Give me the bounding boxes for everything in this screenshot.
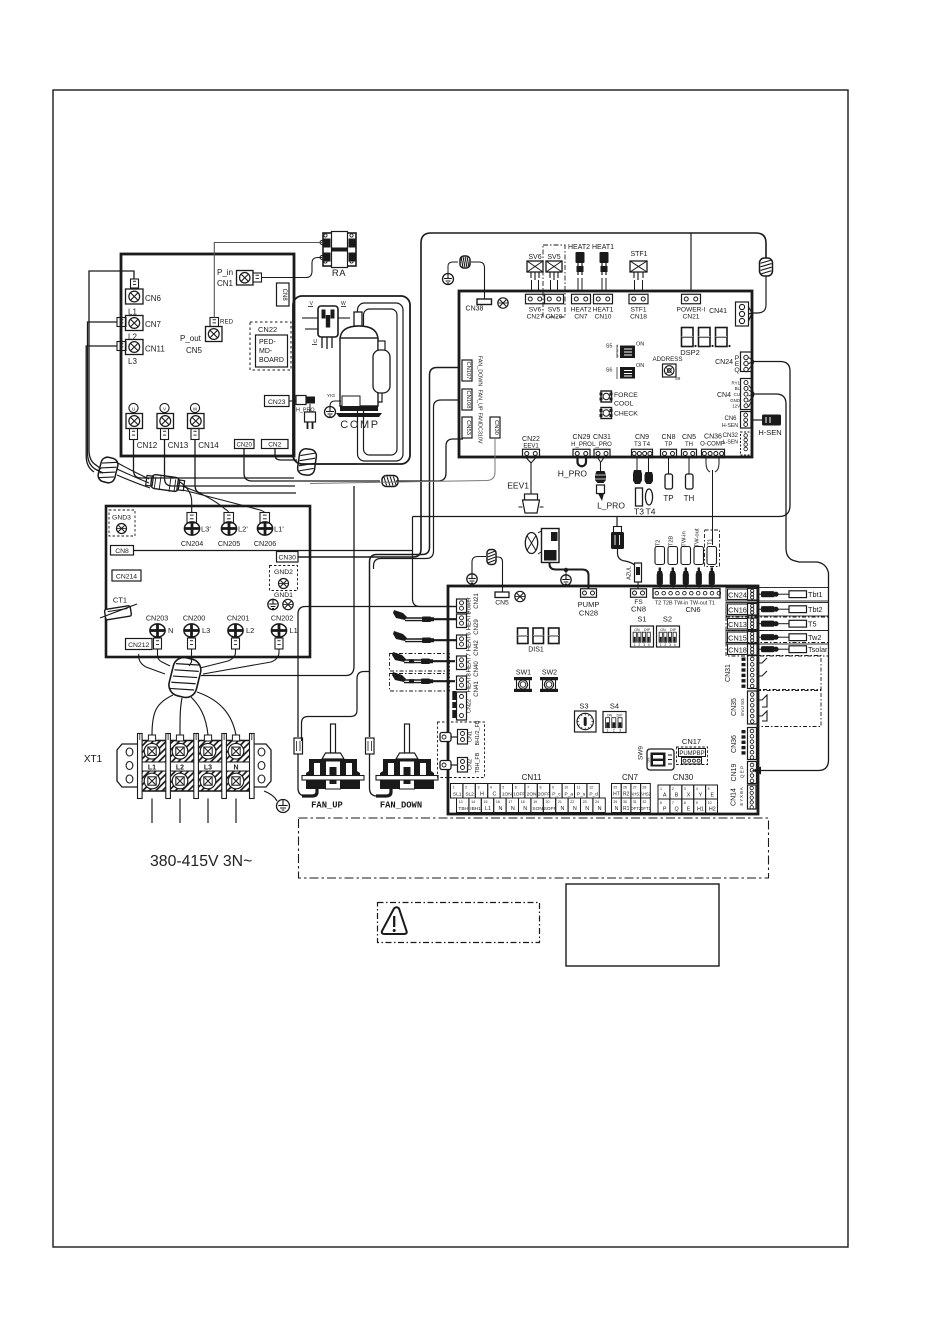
svg-text:CN53: CN53 (465, 420, 471, 435)
svg-text:L3: L3 (202, 626, 210, 635)
button CHECK (601, 408, 612, 419)
cable coil CN41 (760, 258, 773, 276)
svg-text:CN21: CN21 (473, 593, 480, 609)
svg-text:SV6: SV6 (528, 254, 541, 261)
svg-text:Tw2: Tw2 (808, 633, 821, 642)
terminal CN206 L1' (260, 513, 270, 524)
svg-text:CN31: CN31 (593, 434, 611, 441)
svg-text:H-SEN: H-SEN (758, 428, 781, 437)
connector CN6 sensor strip (653, 589, 720, 599)
plug H-SEN (751, 419, 762, 421)
svg-text:CN28: CN28 (579, 609, 598, 618)
display DSP2 (682, 328, 694, 347)
svg-text:5: 5 (502, 785, 504, 789)
svg-text:N: N (615, 806, 619, 812)
svg-text:CN11: CN11 (145, 345, 165, 354)
svg-text:HEAT8: HEAT8 (466, 673, 473, 693)
svg-text:N: N (585, 806, 589, 812)
svg-text:DIP: DIP (617, 714, 624, 718)
svg-text:DIP: DIP (670, 628, 677, 632)
wire CN23 to H_PRO (289, 400, 296, 402)
svg-text:2OFF: 2OFF (538, 792, 550, 798)
svg-text:1: 1 (660, 787, 662, 791)
connector CN28 PUMP (581, 589, 597, 598)
svg-text:19: 19 (533, 800, 537, 804)
wire FAN_UP riser (298, 607, 457, 738)
connector CN6 (131, 279, 139, 288)
connector CN2 (262, 440, 289, 449)
svg-text:CN19: CN19 (731, 763, 738, 781)
svg-text:CN23: CN23 (268, 399, 286, 406)
svg-text:ADDRESS: ADDRESS (653, 356, 683, 363)
svg-text:P: P (663, 807, 667, 813)
svg-text:L1: L1 (148, 765, 156, 772)
svg-text:Tsolar: Tsolar (808, 645, 828, 654)
svg-text:CN7: CN7 (145, 320, 162, 329)
connector CN7 HEAT2 (572, 294, 591, 304)
wire L2 from CN7 (88, 322, 118, 473)
connector CN8 edge label (111, 546, 134, 556)
svg-text:T3: T3 (634, 507, 644, 517)
svg-text:H_PRO: H_PRO (571, 442, 592, 448)
switch H_PRO comp (296, 396, 306, 405)
wire stubs CN35 (757, 695, 767, 721)
svg-text:CN214: CN214 (116, 574, 137, 581)
wires XT1 to bottom (151, 799, 153, 824)
svg-text:S4: S4 (610, 702, 619, 711)
svg-text:N: N (523, 806, 527, 812)
svg-text:EEV1: EEV1 (507, 481, 529, 491)
svg-text:CN42: CN42 (473, 640, 480, 656)
field wiring dash-dot box (299, 818, 769, 878)
svg-text:HEAT5: HEAT5 (466, 611, 473, 631)
svg-text:FAN_DOWN: FAN_DOWN (380, 801, 422, 811)
svg-text:CN202: CN202 (271, 614, 293, 623)
sensor T4 (648, 458, 650, 473)
svg-text:31: 31 (633, 800, 637, 804)
svg-text:CN20: CN20 (546, 314, 563, 321)
wire U CN12 to comp (134, 440, 295, 479)
compressor COMP body (336, 312, 382, 417)
connector CN7 (117, 318, 126, 327)
sensor row CN13 T5 (726, 617, 829, 631)
svg-text:FANDC310V: FANDC310V (477, 413, 483, 444)
svg-text:CN36: CN36 (731, 735, 738, 753)
fan plug inline FAN_UP (294, 738, 303, 754)
svg-text:HEAT1: HEAT1 (593, 307, 614, 314)
wire L1 from CN6 (89, 271, 134, 469)
dashed option boxes right (757, 656, 821, 690)
svg-text:T2: T2 (656, 540, 662, 547)
svg-text:2: 2 (617, 349, 619, 353)
svg-text:TW-out: TW-out (695, 528, 701, 547)
svg-text:A: A (663, 793, 667, 799)
svg-text:X: X (687, 793, 691, 799)
cable coil comp inlet (297, 448, 317, 476)
switch H_PRO upper (578, 458, 587, 467)
svg-text:CN29: CN29 (473, 619, 480, 635)
svg-text:DFT1: DFT1 (640, 806, 651, 811)
wire V CN13 to comp (165, 440, 296, 487)
svg-text:HEAT1: HEAT1 (592, 244, 614, 251)
svg-text:9: 9 (552, 785, 554, 789)
svg-text:CN200: CN200 (183, 614, 205, 623)
plug to CN2 (440, 761, 451, 770)
svg-text:SW1: SW1 (516, 670, 531, 677)
optional SV5 dash-dot box (543, 245, 565, 317)
sensor row CN15 Tw2 (726, 631, 829, 645)
cable clamp (145, 473, 185, 493)
svg-text:CN10: CN10 (595, 314, 612, 321)
svg-text:HEAT7: HEAT7 (466, 653, 473, 673)
svg-text:RED: RED (220, 319, 234, 326)
svg-text:CN15: CN15 (728, 633, 747, 642)
XT1 hatch cells (138, 741, 166, 763)
svg-text:CN8: CN8 (631, 605, 646, 614)
svg-text:SV5: SV5 (548, 307, 561, 314)
svg-text:CN7: CN7 (574, 314, 588, 321)
svg-text:TH: TH (685, 442, 693, 448)
svg-text:Y: Y (699, 793, 703, 799)
svg-text:17: 17 (508, 800, 512, 804)
svg-text:13: 13 (459, 800, 463, 804)
svg-text:26: 26 (623, 785, 627, 789)
ground wire and symbol right of XT1 (264, 791, 277, 801)
svg-text:2: 2 (465, 785, 467, 789)
svg-text:T5: T5 (808, 620, 817, 629)
svg-text:E: E (710, 793, 714, 799)
svg-text:N: N (233, 765, 238, 772)
svg-text:28: 28 (642, 785, 646, 789)
svg-text:CN5: CN5 (186, 346, 203, 355)
svg-text:7: 7 (672, 801, 674, 805)
svg-text:HEAT2: HEAT2 (568, 244, 590, 251)
svg-text:1: 1 (634, 643, 636, 647)
border frame (53, 90, 848, 1247)
svg-text:21: 21 (558, 800, 562, 804)
svg-text:GND1: GND1 (274, 592, 293, 599)
terminal CN12 U (129, 403, 138, 412)
svg-text:BOARD: BOARD (259, 357, 284, 364)
svg-text:L2: L2 (176, 765, 184, 772)
wire FS stem (616, 517, 618, 532)
svg-text:CN11: CN11 (522, 773, 542, 782)
svg-text:P_in: P_in (217, 268, 233, 277)
svg-text:L1: L1 (485, 806, 491, 812)
valve EEV1 (526, 458, 536, 495)
svg-text:2: 2 (638, 643, 640, 647)
svg-text:CN29: CN29 (573, 434, 591, 441)
motor FAN_DOWN (376, 724, 438, 796)
wires clamp to CN204 CN205 CN206 (180, 482, 192, 513)
svg-text:S5: S5 (606, 344, 613, 350)
board PCB3 outline (106, 506, 310, 657)
svg-text:COOL: COOL (614, 401, 633, 408)
svg-text:Tbt1: Tbt1 (808, 590, 823, 599)
connector CN10 HEAT1 (594, 294, 613, 304)
svg-text:3: 3 (643, 643, 645, 647)
svg-text:4: 4 (648, 643, 650, 647)
svg-text:CN41: CN41 (473, 681, 480, 697)
svg-text:20: 20 (546, 800, 550, 804)
svg-text:2: 2 (613, 728, 615, 732)
svg-text:H1: H1 (697, 807, 704, 813)
svg-text:CU: CU (734, 392, 740, 397)
svg-text:SL2: SL2 (465, 792, 474, 798)
svg-text:8: 8 (540, 785, 542, 789)
svg-text:MD-: MD- (259, 348, 273, 355)
board PCB2 outline (459, 291, 752, 457)
wire RA to CN5 (214, 243, 322, 318)
svg-text:TBH_FB: TBH_FB (475, 752, 481, 773)
svg-text:BH1/2_FB: BH1/2_FB (475, 720, 481, 745)
svg-text:CN13: CN13 (728, 620, 747, 629)
svg-text:CN13: CN13 (168, 441, 189, 450)
svg-text:CN212: CN212 (128, 642, 149, 649)
svg-text:CN8: CN8 (115, 548, 129, 555)
svg-text:CN17: CN17 (682, 737, 701, 746)
relay RA (320, 232, 356, 268)
svg-text:BL: BL (735, 386, 741, 391)
svg-text:CN38: CN38 (466, 306, 484, 313)
svg-text:DSP2: DSP2 (680, 348, 700, 357)
dashed box around CN1 CN2 plugs (438, 722, 485, 778)
svg-text:H2: H2 (709, 807, 716, 813)
svg-text:Q: Q (734, 367, 739, 374)
svg-text:SW9: SW9 (638, 746, 645, 760)
connector CN2 TBH_FB (458, 758, 468, 773)
cable coil CN38 wire (460, 256, 470, 268)
svg-text:L-SEN: L-SEN (723, 440, 739, 446)
svg-text:CN18: CN18 (630, 314, 647, 321)
svg-text:11: 11 (577, 785, 581, 789)
connector CN21 POWER-I (682, 294, 701, 304)
wire stubs CN31 (757, 658, 767, 676)
sensor row CN16 Tbt2 (726, 603, 829, 617)
svg-text:P_c: P_c (552, 792, 561, 798)
svg-text:CN205: CN205 (218, 539, 240, 548)
contactor SB above pump (525, 533, 537, 554)
svg-text:PUMPBP: PUMPBP (679, 751, 704, 757)
svg-text:CN2: CN2 (268, 442, 281, 449)
svg-text:ON: ON (607, 714, 613, 718)
svg-text:25: 25 (613, 785, 617, 789)
svg-text:DIS1: DIS1 (528, 647, 544, 654)
svg-text:L3': L3' (201, 525, 211, 534)
junction dot and ground right (564, 568, 568, 572)
svg-text:Q E P: Q E P (740, 766, 745, 778)
wire coil to CN41 (749, 276, 767, 321)
svg-text:TBH: TBH (458, 806, 468, 812)
svg-text:CN30: CN30 (279, 555, 297, 562)
board PCB1 outline (121, 254, 294, 456)
svg-text:10: 10 (708, 801, 712, 805)
svg-text:CN8: CN8 (661, 434, 675, 441)
connector CN5 bar (495, 592, 509, 598)
wires coil to clamp (116, 462, 149, 479)
svg-text:L_PRO: L_PRO (592, 442, 612, 448)
svg-text:L3: L3 (204, 765, 212, 772)
heater HEAT7 optional (390, 654, 450, 672)
svg-text:27: 27 (633, 785, 637, 789)
ground screw on board4 (515, 591, 525, 601)
svg-text:L1: L1 (290, 626, 298, 635)
wires to supply coil (158, 649, 171, 666)
wire L3 from CN11 (86, 346, 117, 472)
cable coil left (97, 456, 120, 484)
connector CN8 board1 edge (277, 283, 290, 306)
svg-text:CN31: CN31 (725, 664, 732, 682)
svg-text:COMP: COMP (340, 419, 379, 431)
ground GND3 (109, 510, 135, 536)
heater HEAT8 optional (390, 674, 450, 692)
svg-text:CN40: CN40 (473, 661, 480, 677)
XT1 mounting posts (138, 734, 143, 799)
svg-text:CN41: CN41 (709, 308, 727, 315)
sensor TH (688, 458, 690, 475)
terminal CN13 V (160, 403, 169, 412)
svg-text:CN8: CN8 (281, 289, 287, 302)
svg-text:1ON: 1ON (502, 792, 512, 798)
svg-text:1: 1 (617, 344, 619, 348)
wire O-COMP down (706, 458, 719, 546)
connector CN214 (112, 570, 141, 581)
connector CN29 HEAT5 (457, 614, 467, 628)
svg-text:H-SEN: H-SEN (722, 423, 738, 429)
svg-text:18: 18 (521, 800, 525, 804)
svg-text:CN14: CN14 (731, 788, 738, 806)
svg-text:1: 1 (453, 785, 455, 789)
svg-text:L3: L3 (128, 357, 137, 366)
svg-text:N: N (511, 806, 515, 812)
svg-text:AHS2: AHS2 (640, 792, 652, 797)
svg-text:H: H (480, 792, 484, 798)
svg-text:CN14: CN14 (198, 441, 219, 450)
svg-text:SOFF: SOFF (544, 806, 557, 812)
sensor T1 optional (705, 530, 720, 567)
connector CN8 FS (631, 589, 647, 598)
svg-text:U: U (132, 406, 135, 411)
svg-text:14: 14 (471, 800, 475, 804)
terminal CN14 W (190, 403, 199, 412)
svg-text:S6: S6 (606, 368, 613, 374)
svg-text:16: 16 (496, 800, 500, 804)
svg-text:CN24: CN24 (715, 359, 733, 366)
svg-text:380-415V 3N~: 380-415V 3N~ (150, 853, 252, 870)
warning triangle (382, 907, 407, 934)
svg-text:DIP: DIP (644, 628, 651, 632)
ground and coil to CN5 (467, 574, 477, 584)
svg-text:YIG: YIG (327, 393, 336, 399)
svg-text:CN108: CN108 (465, 390, 471, 408)
svg-text:CN7: CN7 (622, 773, 639, 782)
svg-text:P_a: P_a (565, 792, 574, 798)
svg-text:1: 1 (660, 643, 662, 647)
svg-text:2: 2 (664, 643, 666, 647)
svg-text:29: 29 (613, 800, 617, 804)
svg-text:CN107: CN107 (465, 361, 471, 379)
connector CN21 Power (457, 599, 467, 613)
COMP compartment enclosure (293, 296, 410, 464)
sensor row CN18 Tsolar (726, 643, 829, 657)
terminal CN204 L3' (187, 513, 197, 524)
svg-text:CN20: CN20 (237, 443, 253, 449)
connector CN18 STF1 (629, 294, 648, 304)
svg-text:EEV1: EEV1 (523, 444, 539, 450)
svg-text:CN36: CN36 (704, 434, 722, 441)
svg-text:CN30: CN30 (673, 773, 694, 782)
wire RA to CN1 (262, 258, 323, 278)
button FORCE COOL (601, 391, 612, 402)
svg-text:CN5: CN5 (682, 434, 696, 441)
svg-text:23: 23 (583, 800, 587, 804)
connector CN1 BH1/2_FB (458, 730, 468, 745)
svg-text:PED-: PED- (259, 339, 276, 346)
wire W CN14 to comp (195, 440, 296, 494)
svg-text:E: E (687, 807, 691, 813)
connector CN212 (126, 639, 153, 650)
wire CN2 right (275, 449, 297, 461)
svg-text:4: 4 (490, 785, 492, 789)
svg-text:N: N (168, 626, 173, 635)
connector CN30 vertical label (490, 417, 500, 438)
svg-text:GND2: GND2 (274, 569, 293, 576)
svg-text:CN22: CN22 (258, 325, 277, 334)
svg-text:CN2: CN2 (468, 759, 474, 770)
svg-text:ON: ON (634, 628, 640, 632)
wire loop inside comp compartment (358, 303, 404, 461)
terminal block XT1 (117, 741, 271, 792)
svg-text:P_d: P_d (589, 792, 598, 798)
svg-text:1: 1 (607, 728, 609, 732)
svg-text:TP: TP (665, 442, 673, 448)
connector CN41 HEAT8 (457, 676, 467, 690)
svg-text:3: 3 (669, 643, 671, 647)
svg-text:R1: R1 (623, 806, 630, 812)
svg-text:SV6: SV6 (529, 307, 542, 314)
connector CN108 FAN_UP (462, 389, 472, 410)
connector CN11 (117, 342, 126, 351)
svg-text:C: C (492, 792, 496, 798)
svg-text:CN30: CN30 (493, 420, 499, 435)
svg-text:XT1: XT1 (84, 754, 103, 765)
svg-text:HEAT2: HEAT2 (571, 307, 592, 314)
svg-text:IBH1: IBH1 (470, 806, 481, 812)
svg-text:S3: S3 (579, 702, 588, 711)
connector CN30 edge label (277, 552, 299, 563)
svg-text:SV5: SV5 (547, 254, 560, 261)
svg-text:N: N (498, 806, 502, 812)
connector CN40 HEAT7 (457, 656, 467, 670)
svg-text:H_PRO: H_PRO (558, 469, 588, 479)
warning note box (378, 903, 540, 943)
plug to CN1 (440, 733, 451, 742)
svg-text:CN6: CN6 (685, 605, 700, 614)
wire CN20 to CN53 (244, 449, 380, 482)
svg-text:T1: T1 (708, 539, 714, 546)
svg-text:L2: L2 (246, 626, 254, 635)
note box solid (566, 884, 719, 966)
wire drop to pump junction (413, 517, 421, 607)
svg-text:Q: Q (674, 807, 678, 813)
svg-text:POWER-I: POWER-I (677, 307, 706, 314)
ground top left of unit (443, 274, 454, 285)
svg-text:CT1: CT1 (113, 596, 127, 605)
svg-text:GND3: GND3 (112, 515, 131, 522)
svg-text:12V: 12V (732, 404, 740, 409)
svg-text:SW2: SW2 (542, 670, 557, 677)
cable coil supply (167, 655, 204, 700)
